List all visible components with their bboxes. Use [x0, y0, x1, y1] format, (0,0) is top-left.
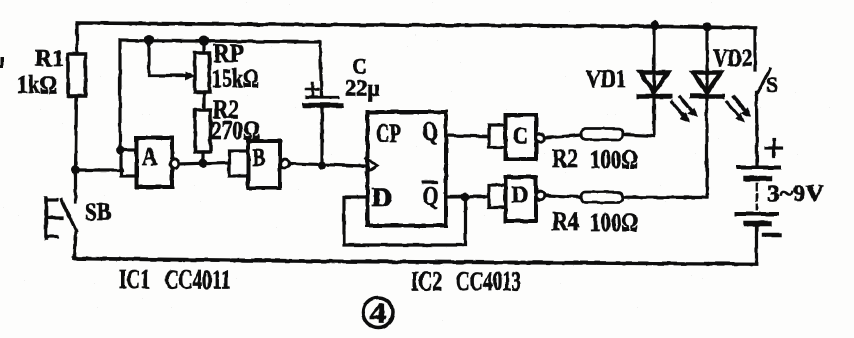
svg-text:C: C [513, 124, 529, 150]
wire: D feedback loop from D input to Q-bar tap [344, 197, 466, 245]
pushbutton SB [46, 199, 76, 259]
svg-text:D: D [512, 183, 529, 209]
svg-text:CP: CP [376, 119, 401, 148]
wire: R1 column down to pushbutton SB [74, 170, 77, 202]
NAND gate B [229, 141, 289, 188]
NAND gate A [121, 138, 179, 188]
flip-flop IC2 half (CC4013) [366, 112, 446, 226]
svg-text:3~9V: 3~9V [767, 181, 824, 206]
svg-text:100Ω: 100Ω [590, 145, 638, 174]
svg-text:R1: R1 [35, 46, 64, 72]
resistor R2 100Ω (horizontal pill) [581, 129, 623, 140]
wire: top supply rail [77, 23, 755, 28]
switch S [755, 28, 770, 167]
resistor R2 270Ω [195, 110, 211, 163]
junction dot: R1 column / gate A input wire [71, 166, 80, 175]
junction dot: feedback tap on Q-bar wire [461, 193, 470, 202]
svg-text:VD1: VD1 [586, 66, 626, 93]
svg-text:IC2: IC2 [411, 266, 442, 296]
resistor R1 1kΩ [68, 23, 86, 170]
svg-text:Q: Q [422, 117, 438, 146]
junction dot: capacitor bottom tap [318, 161, 327, 170]
svg-text:S: S [766, 72, 778, 97]
svg-text:22µ: 22µ [345, 76, 380, 102]
svg-text:1kΩ: 1kΩ [17, 72, 57, 99]
svg-text:A: A [142, 144, 158, 171]
svg-text:CC4013: CC4013 [456, 266, 521, 296]
junction dot: feedback rail at gate A input [116, 146, 125, 155]
wire: R1 column to gate A lower input [76, 168, 123, 171]
scan speck at left edge [0, 57, 4, 68]
junction dot: R2 bottom on A output wire [199, 159, 208, 168]
wire: gate B output to flip-flop CP input [290, 164, 367, 167]
svg-text:15kΩ: 15kΩ [212, 64, 259, 93]
svg-text:IC1: IC1 [119, 264, 150, 294]
wire: feedback rail from gate A input up and across to capacitor top [120, 41, 322, 150]
wire: gate D output to resistor R4 [545, 196, 582, 198]
LED VD2 [692, 27, 752, 198]
wire: Q output to gate C input [446, 134, 489, 138]
svg-text:R2: R2 [552, 144, 578, 173]
svg-text:D: D [372, 183, 393, 212]
junction dot: VD1 anode on top rail [650, 20, 659, 29]
battery B 3~9V [737, 140, 782, 264]
NAND gate D [489, 177, 544, 221]
svg-text:R4: R4 [552, 207, 579, 236]
wire: gate A output to gate B input [179, 163, 229, 165]
svg-text:4: 4 [370, 299, 387, 330]
capacitor C 22µ (electrolytic, + at top) [305, 83, 341, 166]
NAND gate C [489, 115, 544, 159]
potentiometer RP 15kΩ with wiper arrow [149, 40, 210, 110]
wire: bottom rail [74, 259, 757, 265]
svg-text:VD2: VD2 [713, 45, 752, 72]
svg-text:100Ω: 100Ω [590, 208, 638, 237]
resistor R4 100Ω (horizontal pill) [581, 192, 623, 203]
svg-text:Q: Q [423, 182, 439, 211]
junction dot: VD2 anode on top rail [702, 22, 711, 31]
figure number 4 (circled) [363, 298, 393, 330]
LED VD1 [639, 25, 698, 136]
junction dot: RP top on rail [199, 36, 209, 46]
svg-text:B: B [253, 145, 266, 172]
wire: R4 to VD2 cathode column [623, 196, 707, 200]
svg-text:SB: SB [85, 199, 111, 226]
svg-text:C: C [352, 54, 367, 79]
svg-text:CC4011: CC4011 [165, 265, 231, 295]
junction dot: wiper tap on rail [144, 35, 154, 45]
wire: gate C output to resistor R2 100Ω [545, 135, 582, 138]
wire: Q-bar output to gate D input [446, 195, 489, 199]
wire: R2 100Ω to VD1 cathode [623, 135, 654, 137]
